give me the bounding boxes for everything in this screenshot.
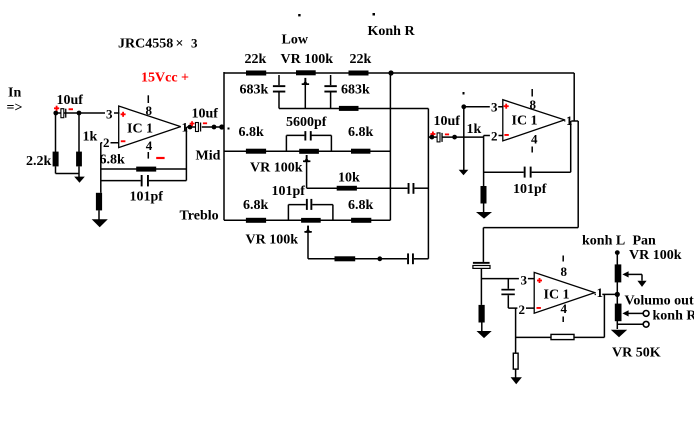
pin 4 U3: [561, 301, 568, 322]
svg-text:3: 3: [521, 273, 528, 288]
potentiometer VR2 100k mid: [250, 149, 319, 176]
resistor R16 U3 feedback: [551, 334, 574, 339]
capacitor C13 U3 pin3-pin2: [501, 279, 514, 309]
wire 10k row: [307, 187, 429, 189]
resistor R17 U3 to ground: [513, 353, 518, 377]
op-amp U2 IC 1: [503, 100, 565, 141]
resistor R14 1k U2 to ground: [481, 186, 487, 212]
svg-text:VR 50K: VR 50K: [612, 346, 661, 361]
wiper VR1: [302, 78, 309, 109]
wire treble out row: [308, 258, 428, 260]
capacitor C7 mid out: [408, 183, 415, 194]
svg-text:2: 2: [519, 302, 526, 317]
ground U2 pin2: [476, 212, 492, 219]
title JRC4558 x 3: [118, 36, 198, 52]
pin 1 wire U3: [595, 285, 620, 300]
resistor R9 6.8k mid right: [348, 125, 374, 154]
wire to U2 input: [428, 136, 483, 138]
label Konh R (top): [298, 13, 415, 39]
wire low section output row: [279, 108, 428, 110]
wire U2 out down: [577, 121, 579, 228]
wire cap to tone stack: [202, 124, 230, 129]
ground input: [74, 177, 85, 183]
resistor R10 10k: [337, 171, 360, 191]
svg-text:VR 100k: VR 100k: [250, 161, 303, 176]
resistor R4 to ground U1: [96, 193, 102, 220]
capacitor C5 683k right: [324, 75, 370, 109]
wiper VR4 pan: [622, 271, 646, 287]
svg-text:Pan: Pan: [633, 234, 657, 249]
power minus mark U1: [156, 157, 164, 159]
node dots C10: [430, 135, 458, 140]
pin 8 U2: [530, 89, 537, 112]
resistor R13 treble out: [335, 256, 356, 261]
wire tone stack left bus: [223, 72, 225, 220]
potentiometer VR1 100k low: [281, 52, 334, 75]
capacitor C2 10uf U1 out: [190, 107, 219, 132]
resistor R7 low out: [339, 106, 359, 111]
wiper VR2: [303, 155, 310, 188]
wire U2 out to 101pf: [570, 121, 572, 172]
resistor R11 6.8k treble left: [243, 198, 269, 223]
svg-text:1: 1: [597, 285, 604, 300]
resistor R6 22k right: [349, 52, 372, 76]
resistor R1 2.2k: [26, 113, 79, 174]
svg-text:Konh R: Konh R: [368, 24, 416, 39]
wire U3 pin2: [508, 302, 534, 317]
svg-text:Volumo out: Volumo out: [625, 294, 694, 309]
svg-text:6.8k: 6.8k: [243, 198, 269, 213]
svg-text:2: 2: [103, 135, 110, 150]
svg-text:5600pf: 5600pf: [286, 115, 327, 130]
ground U2 pin3: [459, 170, 469, 176]
wire collector vertical: [427, 109, 429, 259]
ground U3 input: [477, 331, 492, 338]
svg-text:3: 3: [191, 36, 198, 51]
wiper VR3: [304, 226, 311, 259]
resistor R2 1k: [76, 113, 97, 179]
svg-text:3: 3: [106, 107, 113, 122]
potentiometer VR5 50K volume: [615, 304, 622, 322]
wire U1 out vertical to feedback: [185, 127, 187, 181]
wire tone stack top rail: [224, 72, 574, 74]
resistor R3 6.8k feedback U1: [100, 153, 187, 172]
svg-text:1k: 1k: [83, 130, 98, 145]
svg-text:22k: 22k: [245, 52, 267, 67]
ground U1: [92, 219, 108, 227]
node In label: [7, 86, 23, 116]
svg-text:6.8k: 6.8k: [239, 125, 265, 140]
svg-text:VR 100k: VR 100k: [281, 52, 334, 67]
svg-text:8: 8: [530, 97, 537, 112]
pin 1 wire U2: [564, 113, 578, 128]
svg-text:15Vcc +: 15Vcc +: [141, 71, 189, 86]
pin 4 U1: [146, 138, 153, 159]
potentiometer VR3 100k treble: [246, 218, 321, 248]
capacitor C4 683k left: [240, 75, 286, 109]
svg-text:Treblo: Treblo: [180, 209, 219, 224]
wire input to pin3: [56, 112, 120, 114]
wire feedback top rail to U2 out: [573, 73, 575, 121]
svg-text:683k: 683k: [240, 83, 269, 98]
svg-text:10k: 10k: [338, 171, 360, 186]
svg-text:=>: =>: [7, 101, 23, 116]
resistor R8 6.8k mid left: [239, 125, 267, 154]
node dot treble out: [377, 256, 382, 261]
op-amp U3 IC 1: [534, 272, 595, 313]
wire U2 pin3 node vertical: [461, 92, 466, 172]
svg-text:JRC4558: JRC4558: [118, 37, 173, 52]
terminal konh R: [617, 309, 694, 328]
resistor R5 22k left: [245, 52, 267, 76]
wiper VR5 volume out: [622, 310, 649, 316]
capacitor C12 coupling U3: [473, 262, 490, 305]
svg-text:1k: 1k: [467, 122, 482, 137]
svg-text:8: 8: [561, 264, 568, 279]
svg-text:konh L: konh L: [582, 234, 625, 249]
pin 8 U3: [561, 256, 568, 280]
pin 8 U1: [146, 95, 153, 118]
wire mid row: [224, 150, 390, 152]
capacitor C11 101pf U2 feedback: [484, 167, 571, 197]
svg-text:VR 100k: VR 100k: [246, 233, 299, 248]
wire U2 pin2 jog: [484, 129, 503, 144]
svg-text:2: 2: [491, 129, 498, 144]
pin 1 wire U1 out: [181, 120, 196, 135]
potentiometer VR4 100k pan: [615, 250, 622, 329]
svg-text:4: 4: [146, 138, 153, 153]
ground U3 feedback: [511, 377, 522, 384]
svg-text:10uf: 10uf: [192, 107, 219, 122]
svg-text:2.2k: 2.2k: [26, 154, 52, 169]
wire U2 out to U3 stage: [483, 228, 578, 262]
svg-text:Low: Low: [282, 33, 309, 48]
capacitor C8 101pf treble: [272, 184, 333, 220]
capacitor C3 101pf feedback U1: [101, 175, 187, 205]
wire U3 pin3: [481, 273, 534, 288]
capacitor C1 10uf input: [54, 93, 83, 118]
svg-text:In: In: [8, 86, 21, 101]
svg-text:4: 4: [531, 132, 538, 147]
svg-text:6.8k: 6.8k: [348, 198, 374, 213]
svg-text:22k: 22k: [350, 52, 372, 67]
svg-text:10uf: 10uf: [57, 93, 84, 108]
wire U2 pin2 down: [483, 137, 485, 186]
svg-text:1: 1: [566, 113, 573, 128]
wire tone stack right bus: [389, 73, 391, 220]
op-amp U1 IC 1: [119, 106, 181, 148]
resistor R12 6.8k treble right: [348, 198, 374, 223]
wire U3 feedback row: [516, 336, 605, 338]
svg-text:10uf: 10uf: [434, 114, 461, 129]
capacitor C10 10uf U2 input: [430, 114, 460, 142]
wire U3 out down: [603, 294, 605, 337]
svg-text:×: ×: [176, 37, 184, 52]
wire pin2 down U1: [100, 143, 102, 193]
wire U3 pin2 down: [515, 308, 517, 353]
node dot top rail: [388, 70, 393, 75]
wire U2 pin3: [464, 100, 503, 115]
svg-text:IC 1: IC 1: [127, 122, 153, 137]
svg-text:konh R: konh R: [653, 309, 694, 324]
svg-text:101pf: 101pf: [272, 184, 306, 199]
svg-text:IC 1: IC 1: [512, 114, 538, 129]
svg-text:101pf: 101pf: [513, 182, 547, 197]
pin 4 U2: [531, 132, 538, 153]
svg-text:Mid: Mid: [196, 149, 221, 164]
ground VR5: [611, 330, 627, 338]
capacitor C9 treble out: [407, 253, 414, 264]
svg-text:3: 3: [491, 100, 498, 115]
svg-text:4: 4: [561, 301, 568, 316]
wire treble row: [224, 219, 390, 221]
svg-text:6.8k: 6.8k: [100, 153, 126, 168]
node junction dots input: [53, 111, 81, 116]
svg-text:8: 8: [146, 103, 153, 118]
svg-text:VR 100k: VR 100k: [629, 248, 682, 263]
capacitor C6 5600pf: [286, 115, 331, 151]
svg-text:101pf: 101pf: [130, 190, 164, 205]
pin 2 wire U1: [101, 135, 119, 150]
svg-text:6.8k: 6.8k: [348, 125, 374, 140]
resistor R15 U3 input to ground: [479, 305, 485, 333]
node dot U1 out: [188, 125, 193, 130]
svg-text:683k: 683k: [341, 83, 370, 98]
